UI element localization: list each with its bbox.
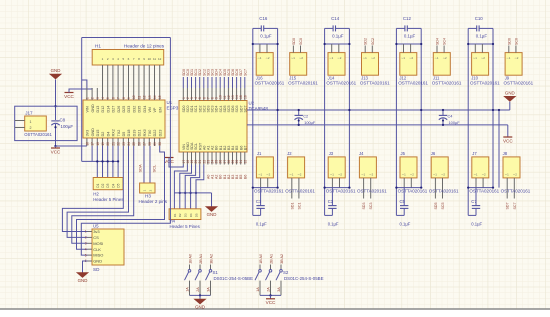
svg-text:RX2: RX2: [112, 129, 116, 136]
svg-text:GND: GND: [78, 278, 88, 283]
svg-text:2A: 2A: [267, 287, 271, 292]
svg-text:SD3: SD3: [362, 203, 366, 210]
svg-text:0.1µF: 0.1µF: [256, 222, 267, 227]
svg-text:29: 29: [153, 142, 157, 146]
svg-text:D5: D5: [194, 213, 198, 217]
svg-text:D21: D21: [138, 130, 142, 137]
svg-text:0.1µF: 0.1µF: [471, 222, 482, 227]
svg-text:∼2: ∼2: [299, 56, 303, 60]
svg-text:H2: H2: [93, 192, 99, 197]
svg-text:∼2: ∼2: [338, 173, 342, 177]
svg-text:100µF: 100µF: [61, 124, 74, 129]
svg-text:D4: D4: [189, 213, 193, 217]
svg-text:17: 17: [91, 142, 95, 146]
svg-text:D3: D3: [184, 213, 188, 217]
svg-text:C7: C7: [471, 199, 477, 204]
svg-text:VN: VN: [148, 107, 152, 112]
svg-text:GND: GND: [51, 68, 61, 73]
svg-text:SD5: SD5: [434, 203, 438, 210]
svg-text:∼1: ∼1: [473, 56, 477, 60]
svg-text:SC7: SC7: [243, 69, 247, 76]
svg-text:7: 7: [117, 97, 121, 99]
svg-text:9: 9: [127, 97, 131, 99]
svg-text:D2: D2: [101, 183, 105, 187]
svg-text:VIN: VIN: [86, 106, 90, 112]
svg-text:2: 2: [91, 97, 95, 99]
svg-text:D33: D33: [127, 106, 131, 113]
svg-text:C12: C12: [403, 16, 412, 21]
svg-text:2B A1: 2B A1: [269, 254, 273, 264]
svg-text:4: 4: [85, 247, 87, 251]
svg-text:OSTTA020161: OSTTA020161: [254, 189, 284, 194]
svg-text:D14: D14: [106, 106, 110, 113]
svg-text:30: 30: [158, 142, 162, 146]
svg-text:23: 23: [122, 142, 126, 146]
svg-text:3A: 3A: [277, 287, 281, 292]
svg-text:SC7: SC7: [243, 106, 247, 113]
svg-text:B6: B6: [243, 175, 247, 179]
svg-text:D1: D1: [96, 183, 100, 187]
svg-text:SC3: SC3: [369, 203, 373, 210]
svg-text:OSTTA020161: OSTTA020161: [469, 189, 499, 194]
svg-text:U2: U2: [249, 101, 255, 106]
svg-text:GND: GND: [93, 259, 102, 264]
svg-text:SD6: SD6: [507, 38, 511, 45]
svg-text:GND: GND: [195, 304, 205, 309]
svg-text:J2: J2: [287, 151, 292, 156]
svg-text:SC7: SC7: [513, 203, 517, 210]
svg-text:U1: U1: [167, 100, 173, 105]
svg-text:D1: D1: [173, 213, 177, 217]
svg-text:GND: GND: [207, 212, 217, 217]
svg-text:D22: D22: [153, 130, 157, 137]
svg-text:27: 27: [143, 142, 147, 146]
svg-text:25: 25: [132, 142, 136, 146]
svg-text:∼2: ∼2: [371, 56, 375, 60]
svg-text:6: 6: [111, 97, 115, 99]
svg-text:22: 22: [117, 142, 121, 146]
svg-text:12: 12: [158, 57, 162, 61]
svg-text:3V3: 3V3: [86, 130, 90, 137]
svg-text:∼2: ∼2: [337, 56, 341, 60]
svg-text:SD: SD: [93, 267, 100, 272]
svg-text:5: 5: [85, 253, 87, 257]
svg-text:2B A1: 2B A1: [199, 254, 203, 264]
svg-text:3B A2: 3B A2: [209, 254, 213, 264]
svg-text:D23: D23: [158, 130, 162, 137]
svg-text:1A: 1A: [186, 287, 190, 292]
svg-text:J8: J8: [503, 151, 508, 156]
svg-text:24: 24: [127, 142, 131, 146]
svg-text:D25: D25: [122, 106, 126, 113]
svg-text:26: 26: [137, 142, 141, 146]
svg-text:OSTTA020161: OSTTA020161: [288, 81, 318, 86]
svg-text:∼1: ∼1: [434, 56, 438, 60]
svg-text:OSTTA020161: OSTTA020161: [326, 189, 356, 194]
svg-text:D13: D13: [96, 106, 100, 113]
svg-text:OSTTA020161: OSTTA020161: [285, 189, 315, 194]
svg-text:RX0: RX0: [143, 129, 147, 136]
svg-text:∼2: ∼2: [443, 56, 447, 60]
svg-text:SC0: SC0: [299, 38, 303, 45]
svg-text:D2: D2: [178, 213, 182, 217]
svg-text:C10: C10: [475, 16, 484, 21]
svg-text:∼2: ∼2: [297, 173, 301, 177]
svg-text:1: 1: [85, 97, 89, 99]
svg-text:SD0: SD0: [292, 38, 296, 45]
svg-text:3v3: 3v3: [93, 229, 100, 234]
svg-text:C14: C14: [331, 16, 340, 21]
svg-text:S1: S1: [213, 270, 219, 275]
svg-text:∼2: ∼2: [514, 56, 518, 60]
svg-text:C3: C3: [328, 199, 334, 204]
svg-text:18: 18: [96, 142, 100, 146]
svg-text:20: 20: [106, 142, 110, 146]
svg-text:∼2: ∼2: [441, 173, 445, 177]
svg-text:EN: EN: [158, 107, 162, 112]
svg-text:∼1: ∼1: [401, 56, 405, 60]
svg-text:D4: D4: [111, 183, 115, 187]
svg-text:SD4: SD4: [436, 38, 440, 45]
svg-text:OSTTA020161: OSTTA020161: [398, 189, 428, 194]
svg-text:∼1: ∼1: [433, 173, 437, 177]
svg-text:MOSI: MOSI: [93, 241, 103, 246]
svg-text:∼1: ∼1: [329, 56, 333, 60]
svg-text:VCC: VCC: [266, 300, 276, 305]
svg-text:D27: D27: [112, 106, 116, 113]
svg-text:OSTTA020161: OSTTA020161: [432, 81, 462, 86]
svg-text:J1: J1: [257, 151, 262, 156]
svg-text:H3: H3: [145, 194, 151, 199]
svg-text:∼2: ∼2: [266, 173, 270, 177]
svg-text:SCL: SCL: [152, 164, 157, 173]
svg-text:D35: D35: [138, 106, 142, 113]
svg-text:13: 13: [148, 95, 152, 99]
svg-text:D34: D34: [143, 106, 147, 113]
svg-text:1B A0: 1B A0: [188, 254, 192, 264]
svg-text:J7: J7: [472, 151, 477, 156]
svg-text:∼1: ∼1: [363, 56, 367, 60]
svg-text:OSTTA020161: OSTTA020161: [255, 81, 285, 86]
svg-text:10: 10: [148, 57, 152, 61]
svg-text:D32: D32: [132, 106, 136, 113]
svg-text:∼1: ∼1: [402, 173, 406, 177]
svg-text:OSTTA020161: OSTTA020161: [326, 81, 356, 86]
svg-text:J17: J17: [25, 111, 33, 116]
svg-text:∼2: ∼2: [409, 56, 413, 60]
svg-text:U5: U5: [93, 223, 99, 228]
svg-text:OSTTA020161: OSTTA020161: [501, 189, 531, 194]
svg-text:0.1µF: 0.1µF: [332, 34, 344, 39]
svg-text:S2: S2: [283, 270, 289, 275]
svg-text:3A: 3A: [207, 287, 211, 292]
svg-text:∼2: ∼2: [369, 173, 373, 177]
svg-text:∼1: ∼1: [506, 56, 510, 60]
svg-text:Header 2 pins: Header 2 pins: [139, 199, 168, 204]
svg-text:OSTTA020161: OSTTA020161: [429, 189, 459, 194]
svg-text:2: 2: [85, 236, 87, 240]
svg-text:D5: D5: [117, 183, 121, 187]
svg-text:D4: D4: [106, 132, 110, 137]
svg-text:C8: C8: [60, 118, 66, 123]
svg-text:SD7: SD7: [506, 203, 510, 210]
svg-text:OSTTA020161: OSTTA020161: [470, 81, 500, 86]
svg-text:11: 11: [153, 57, 156, 61]
svg-text:SC2: SC2: [371, 38, 375, 45]
svg-text:16: 16: [85, 142, 89, 146]
svg-text:SD2: SD2: [364, 38, 368, 45]
svg-text:C1: C1: [256, 199, 262, 204]
svg-text:Header 5 Pines: Header 5 Pines: [170, 224, 201, 229]
svg-text:1: 1: [30, 120, 32, 124]
svg-text:Header 5 Pines: Header 5 Pines: [93, 197, 124, 202]
svg-text:4: 4: [101, 97, 105, 99]
svg-text:J4: J4: [359, 151, 364, 156]
svg-text:SC1: SC1: [297, 203, 301, 210]
svg-text:DS01C-254-S-05BE: DS01C-254-S-05BE: [284, 276, 324, 281]
svg-text:J3: J3: [329, 151, 334, 156]
svg-text:D2: D2: [101, 132, 105, 137]
svg-text:3B A2: 3B A2: [280, 254, 284, 264]
svg-text:2A: 2A: [196, 287, 200, 292]
svg-text:5: 5: [106, 97, 110, 99]
svg-text:∼2: ∼2: [482, 173, 486, 177]
svg-text:100µF: 100µF: [304, 120, 316, 125]
svg-text:D18: D18: [127, 130, 131, 137]
svg-text:3: 3: [96, 97, 100, 99]
svg-text:C2: C2: [303, 114, 308, 119]
svg-text:J6: J6: [431, 151, 436, 156]
svg-text:TX0: TX0: [148, 130, 152, 137]
svg-text:0.1µF: 0.1µF: [260, 34, 272, 39]
svg-text:D5: D5: [122, 132, 126, 137]
svg-text:∼1: ∼1: [505, 173, 509, 177]
svg-text:B7: B7: [243, 146, 247, 150]
svg-text:D3: D3: [106, 183, 110, 187]
svg-text:∼2: ∼2: [513, 173, 517, 177]
svg-text:16: 16: [243, 95, 247, 99]
svg-text:C16: C16: [259, 16, 268, 21]
svg-text:GND: GND: [91, 128, 95, 137]
svg-text:∼1: ∼1: [473, 173, 477, 177]
svg-text:2: 2: [30, 126, 32, 130]
svg-text:∼1: ∼1: [291, 56, 295, 60]
svg-text:D19: D19: [132, 130, 136, 137]
svg-text:DS01C-254-S-05BE: DS01C-254-S-05BE: [214, 276, 254, 281]
svg-text:SD1: SD1: [290, 203, 294, 210]
svg-text:VCC: VCC: [503, 138, 513, 143]
svg-text:19: 19: [101, 142, 105, 146]
svg-text:OSTTA020161: OSTTA020161: [398, 81, 428, 86]
svg-text:1A: 1A: [256, 287, 260, 292]
svg-text:10: 10: [132, 95, 136, 99]
svg-text:CS: CS: [93, 235, 99, 240]
svg-text:21: 21: [111, 142, 115, 146]
svg-text:C4: C4: [448, 114, 454, 119]
svg-text:1B A0: 1B A0: [259, 254, 263, 264]
svg-text:28: 28: [148, 142, 152, 146]
svg-text:32: 32: [243, 160, 247, 164]
svg-text:∼2: ∼2: [265, 56, 269, 60]
svg-text:OSTTA020161: OSTTA020161: [360, 81, 390, 86]
svg-text:∼1: ∼1: [330, 173, 334, 177]
svg-text:15: 15: [158, 95, 162, 99]
svg-text:D15: D15: [96, 130, 100, 137]
svg-text:0.1µF: 0.1µF: [476, 34, 488, 39]
svg-text:SC4: SC4: [443, 38, 447, 45]
svg-text:TX2: TX2: [117, 130, 121, 137]
svg-text:14: 14: [153, 95, 157, 99]
svg-text:D12: D12: [101, 106, 105, 113]
svg-text:100µF: 100µF: [449, 120, 461, 125]
svg-text:VP: VP: [153, 107, 157, 112]
svg-text:3: 3: [85, 242, 87, 246]
svg-text:J5: J5: [401, 151, 406, 156]
svg-text:CLK: CLK: [93, 247, 101, 252]
svg-text:D26: D26: [117, 106, 121, 113]
svg-text:∼2: ∼2: [481, 56, 485, 60]
svg-text:∼1: ∼1: [361, 173, 365, 177]
svg-text:MISO: MISO: [93, 253, 103, 258]
svg-text:8: 8: [122, 97, 126, 99]
svg-text:∼1: ∼1: [258, 173, 262, 177]
svg-text:GND: GND: [505, 91, 515, 96]
svg-text:GND: GND: [91, 104, 95, 113]
svg-text:∼2: ∼2: [410, 173, 414, 177]
svg-text:Header de 12 pines: Header de 12 pines: [124, 44, 165, 49]
svg-text:H1: H1: [95, 44, 101, 49]
svg-text:∼1: ∼1: [289, 173, 293, 177]
svg-text:0.1µF: 0.1µF: [400, 222, 411, 227]
svg-text:11: 11: [137, 95, 141, 99]
svg-text:OSTTA020161: OSTTA020161: [24, 132, 52, 137]
svg-text:OSTTA020161: OSTTA020161: [504, 81, 534, 86]
svg-text:12: 12: [143, 95, 147, 99]
svg-text:C5: C5: [400, 199, 406, 204]
svg-text:VCC: VCC: [64, 94, 74, 99]
svg-text:SC5: SC5: [441, 203, 445, 210]
svg-text:0.1µF: 0.1µF: [328, 222, 339, 227]
svg-text:OSTTA020161: OSTTA020161: [357, 189, 387, 194]
svg-text:1: 1: [85, 230, 87, 234]
svg-text:0.1µF: 0.1µF: [404, 34, 416, 39]
svg-text:∼1: ∼1: [257, 56, 261, 60]
svg-text:VCC: VCC: [51, 149, 61, 154]
svg-text:SC6: SC6: [514, 38, 518, 45]
svg-text:SDA: SDA: [138, 164, 143, 173]
